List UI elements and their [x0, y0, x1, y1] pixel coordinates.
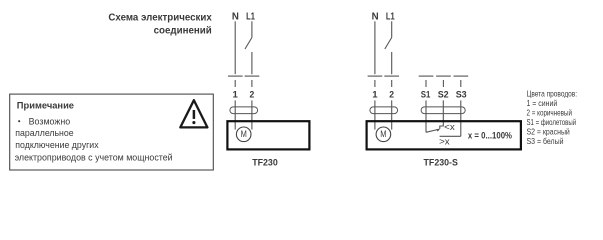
- terminal dash 2: [384, 75, 399, 77]
- svg-text:<x: <x: [444, 121, 455, 132]
- svg-text:электроприводов с учетом мощно: электроприводов с учетом мощностей: [15, 152, 173, 162]
- svg-text:2 = коричневый: 2 = коричневый: [527, 109, 573, 118]
- svg-text:L1: L1: [246, 11, 255, 22]
- terminal tick 1: [234, 80, 236, 87]
- svg-text:>x: >x: [439, 136, 450, 147]
- svg-text:Возможно: Возможно: [29, 116, 71, 126]
- legend "Цвета проводов": [527, 90, 578, 146]
- cable gland capsule left: [370, 107, 398, 114]
- svg-text:Схема электрических: Схема электрических: [108, 11, 212, 23]
- actuator box TF230-S: [367, 121, 521, 149]
- wiper arrowhead: [436, 129, 440, 132]
- wire L1 upper: [391, 21, 393, 37]
- svg-text:M: M: [380, 129, 386, 139]
- cable gland capsule: [230, 107, 258, 114]
- wire S3 into box: [460, 100, 462, 136]
- actuator box TF230: [227, 121, 309, 149]
- motor circle M: [376, 127, 391, 142]
- wire N: [234, 21, 236, 74]
- svg-text:TF230-S: TF230-S: [424, 157, 458, 167]
- terminal dash 1: [228, 75, 243, 77]
- terminal dash S1: [419, 75, 434, 77]
- title "Схема электрических соединений": [108, 11, 212, 36]
- svg-text:S1 = фиолетовый: S1 = фиолетовый: [527, 118, 577, 127]
- svg-text:S1: S1: [421, 90, 431, 101]
- contact line S3: [440, 135, 461, 137]
- note bullet dot: [18, 120, 20, 122]
- warning exclamation bar: [193, 110, 196, 119]
- switch blade: [385, 38, 392, 50]
- terminal tick 1: [374, 80, 376, 87]
- svg-text:N: N: [372, 11, 379, 22]
- terminal tick 2: [251, 80, 253, 87]
- svg-text:1: 1: [233, 90, 239, 101]
- svg-text:M: M: [241, 129, 247, 139]
- wire into box pin2: [391, 100, 393, 129]
- switch blade S1 wiper: [426, 129, 438, 132]
- terminal tick S3: [460, 80, 462, 87]
- svg-text:соединений: соединений: [154, 24, 212, 36]
- svg-text:TF230: TF230: [252, 157, 278, 167]
- switch blade: [245, 38, 252, 50]
- svg-text:Цвета проводов:: Цвета проводов:: [527, 90, 578, 99]
- svg-text:1 = синий: 1 = синий: [527, 99, 558, 108]
- svg-text:x = 0...100%: x = 0...100%: [468, 131, 512, 141]
- wire into box pin1: [374, 100, 376, 129]
- svg-text:2: 2: [389, 90, 394, 101]
- wire S2 into box: [440, 100, 444, 128]
- svg-text:S3 = белый: S3 = белый: [527, 137, 564, 146]
- svg-text:параллельное: параллельное: [15, 128, 73, 138]
- svg-text:S2 = красный: S2 = красный: [527, 128, 570, 137]
- svg-text:2: 2: [250, 90, 255, 101]
- svg-text:1: 1: [372, 90, 378, 101]
- svg-text:L1: L1: [386, 11, 395, 22]
- warning triangle: [180, 100, 207, 127]
- wire into box pin1: [234, 100, 236, 129]
- svg-text:Примечание: Примечание: [17, 101, 74, 112]
- terminal tick 2: [391, 80, 393, 87]
- wire N: [374, 21, 376, 74]
- svg-text:N: N: [232, 11, 239, 22]
- svg-text:S2: S2: [438, 90, 449, 101]
- warning exclamation dot: [192, 121, 195, 124]
- terminal dash 2: [245, 75, 260, 77]
- svg-text:подключение других: подключение других: [15, 140, 99, 150]
- wire L1 upper: [251, 21, 253, 37]
- wire into box pin2: [251, 100, 253, 129]
- wire L1 lower: [251, 52, 253, 74]
- note box: [10, 94, 214, 170]
- terminal dash S2: [436, 75, 451, 77]
- terminal tick S2: [442, 80, 444, 87]
- terminal dash 1: [368, 75, 383, 77]
- wire L1 lower: [391, 52, 393, 74]
- wire S1 into box: [425, 100, 427, 132]
- terminal dash S3: [454, 75, 469, 77]
- terminal tick S1: [425, 80, 427, 87]
- cable gland capsule right: [421, 107, 465, 114]
- motor circle M: [236, 127, 251, 142]
- svg-text:S3: S3: [456, 90, 467, 101]
